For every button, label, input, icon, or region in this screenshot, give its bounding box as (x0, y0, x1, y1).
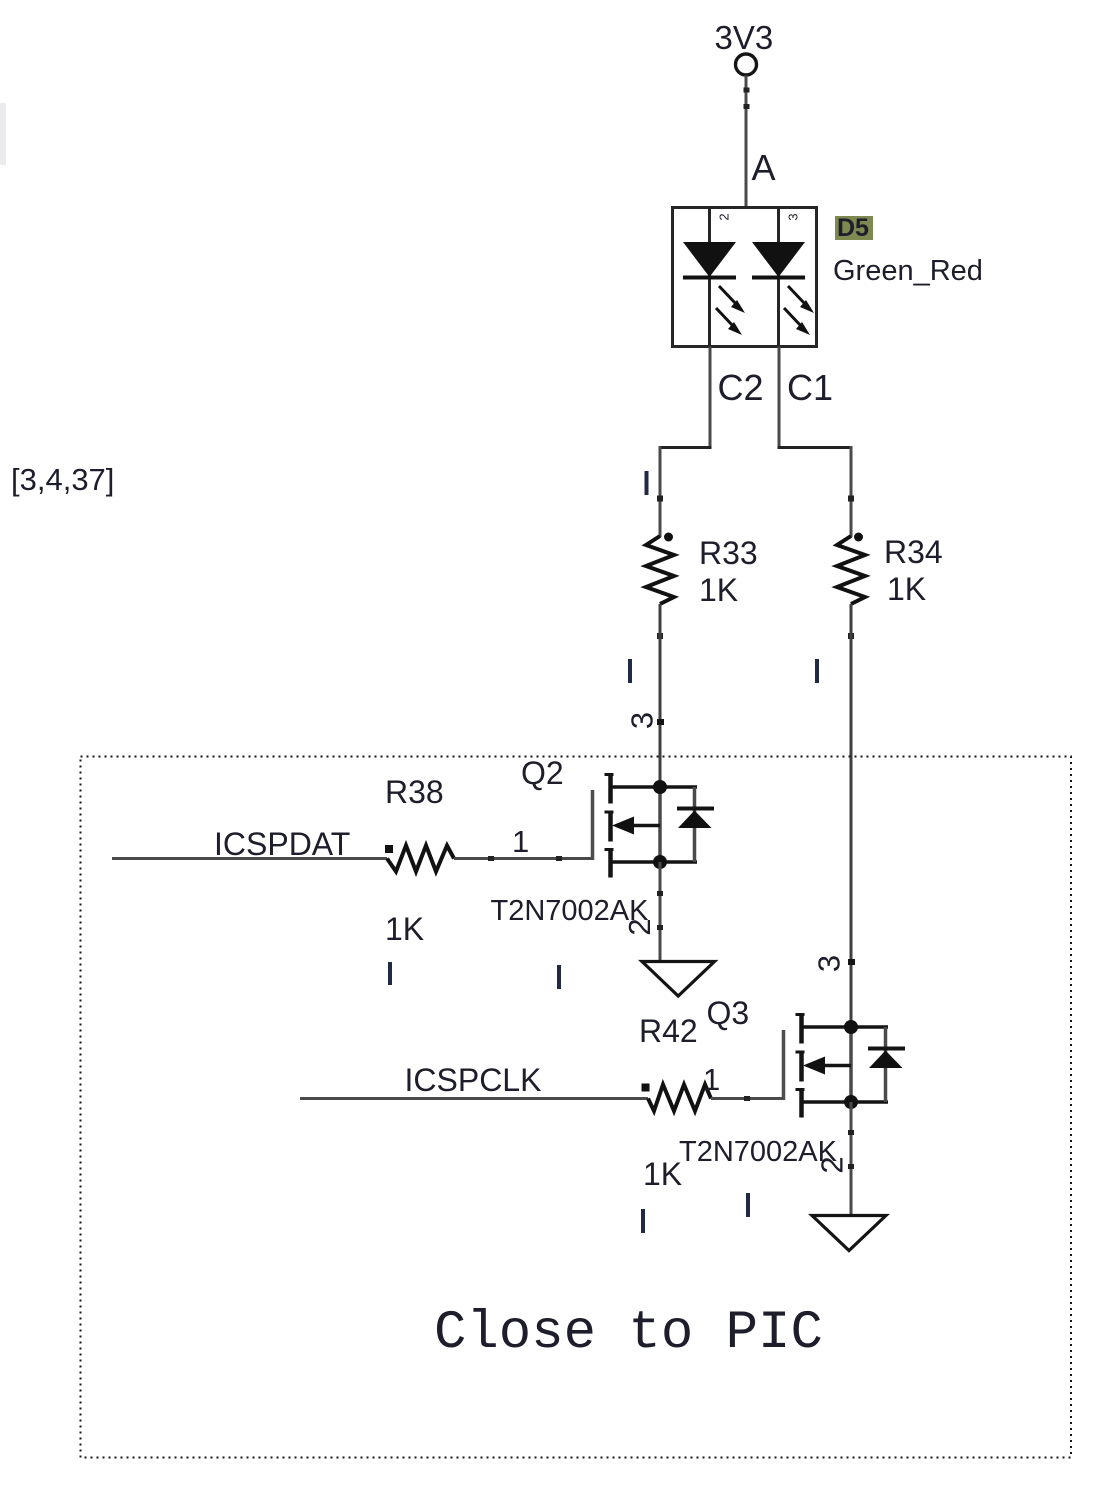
svg-text:1: 1 (703, 1062, 720, 1097)
resistor R33 (646, 536, 674, 604)
svg-text:3: 3 (625, 712, 660, 729)
svg-text:C1: C1 (787, 367, 833, 408)
wire R38 to Q2 gate (454, 857, 593, 860)
svg-text:1K: 1K (699, 572, 738, 608)
LED D5 red emission arrow 1 (788, 286, 806, 305)
transistor Q2 gate bar (591, 790, 595, 860)
pin end tick (848, 633, 854, 639)
svg-text:A: A (752, 147, 776, 188)
ground Q2 (642, 962, 715, 997)
resistor R34 (837, 536, 865, 604)
wire Q3 source to ground (850, 1102, 853, 1215)
pin end tick (556, 856, 562, 861)
LED D5 green emission arrow 2 (716, 308, 734, 327)
wire ICSPDAT net (112, 857, 387, 860)
svg-text:1K: 1K (887, 571, 926, 607)
junction dot Q3 source (844, 1095, 858, 1109)
resistor R38 (387, 846, 454, 872)
pin end tick (848, 959, 855, 965)
svg-text:Close to PIC: Close to PIC (434, 1303, 823, 1364)
pin end tick (848, 1164, 854, 1169)
transistor Q3 spine (849, 1027, 853, 1102)
marker I (388, 962, 392, 985)
svg-text:R42: R42 (639, 1013, 698, 1049)
svg-text:ICSPCLK: ICSPCLK (405, 1062, 542, 1098)
sheet edge artifact (0, 103, 6, 165)
marker I (645, 471, 649, 495)
pin end tick (744, 104, 750, 109)
LED D5 green diode (683, 242, 736, 277)
junction dot Q3 drain (844, 1020, 858, 1034)
svg-text:2: 2 (717, 213, 732, 220)
wire R33 to Q2 drain (659, 604, 662, 787)
pin end tick (744, 1096, 750, 1101)
junction dot R33 (664, 533, 673, 542)
transistor Q3 body diode (868, 1047, 905, 1051)
svg-text:[3,4,37]: [3,4,37] (11, 462, 114, 497)
wire jog left (659, 446, 712, 449)
LED D5 right internal lead (777, 208, 780, 347)
junction square R42 (642, 1084, 650, 1092)
svg-text:1K: 1K (385, 911, 424, 947)
designator D5 highlight (835, 216, 873, 240)
resistor R42 (648, 1085, 711, 1112)
svg-text:1: 1 (512, 824, 529, 859)
marker I (815, 659, 819, 683)
power 3V3 terminal (736, 54, 757, 75)
junction dot R34 (854, 533, 863, 542)
svg-text:Q3: Q3 (707, 995, 750, 1031)
transistor Q2 drain link (611, 785, 698, 789)
pin end tick (657, 925, 663, 930)
LED D5 left internal lead (708, 208, 711, 347)
marker I (641, 1209, 645, 1233)
pin end tick (657, 633, 663, 639)
pin end tick (657, 496, 663, 502)
svg-text:Q2: Q2 (521, 755, 564, 791)
pin end tick (488, 856, 494, 861)
marker I (557, 965, 561, 989)
pin end tick (744, 88, 750, 93)
LED D5 red emission arrow 2 (784, 308, 802, 327)
wire down to R34 (850, 446, 853, 537)
svg-text:1K: 1K (643, 1156, 682, 1192)
svg-text:3V3: 3V3 (715, 19, 774, 56)
transistor Q3 source link (802, 1100, 889, 1104)
LED D5 red diode (752, 242, 805, 277)
svg-text:R38: R38 (385, 774, 444, 810)
LED D5 green emission arrow 1 (719, 286, 737, 305)
svg-text:2: 2 (622, 918, 657, 935)
LED D5 body (673, 208, 817, 347)
transistor Q3 body diode lead (884, 1027, 888, 1102)
transistor Q2 channel segments (608, 773, 613, 804)
junction dot Q2 source (653, 855, 667, 869)
wire R34 to Q3 drain (850, 604, 853, 1027)
transistor Q2 body diode (677, 807, 714, 811)
transistor Q2 source link (611, 860, 698, 864)
svg-text:C2: C2 (718, 367, 764, 408)
transistor Q2 body diode lead (693, 787, 697, 862)
pin end tick (848, 1130, 854, 1135)
transistor Q3 drain link (802, 1025, 889, 1029)
junction square R38 (385, 845, 393, 853)
svg-text:R33: R33 (699, 535, 758, 571)
pin end tick (657, 719, 664, 725)
svg-text:3: 3 (812, 955, 847, 972)
transistor Q3 channel segments (799, 1013, 804, 1044)
ground Q3 (812, 1216, 886, 1251)
transistor Q2 body arrow (632, 824, 660, 828)
pin end tick (657, 891, 663, 896)
svg-text:R34: R34 (884, 534, 943, 570)
marker I (746, 1193, 750, 1217)
svg-text:ICSPDAT: ICSPDAT (214, 826, 350, 862)
wire Q2 source to ground (659, 862, 662, 961)
wire jog right (778, 446, 853, 449)
pin end tick (848, 496, 854, 502)
wire down to R33 (659, 446, 662, 537)
transistor Q2 spine (658, 787, 662, 862)
wire R42 to Q3 gate (711, 1097, 784, 1100)
marker I (628, 659, 632, 683)
junction dot Q2 drain (653, 780, 667, 794)
transistor Q3 body arrow (823, 1064, 851, 1068)
transistor Q3 gate bar (782, 1030, 786, 1100)
svg-text:Green_Red: Green_Red (833, 255, 983, 287)
wire 3V3 to LED anode (745, 76, 748, 209)
svg-text:D5: D5 (837, 214, 869, 242)
svg-text:2: 2 (815, 1156, 850, 1173)
wire LED C2 down (709, 347, 712, 450)
dotted region Close to PIC (81, 757, 1072, 1458)
wire ICSPCLK net (300, 1097, 648, 1100)
svg-text:3: 3 (786, 213, 801, 220)
wire LED C1 down (778, 347, 781, 450)
